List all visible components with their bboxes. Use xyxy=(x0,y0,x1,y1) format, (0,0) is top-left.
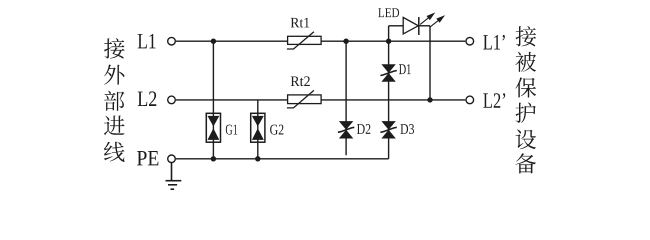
wire G2 branch (L2 to PE) xyxy=(257,100,259,159)
LED emission arrows xyxy=(420,14,443,28)
value label D1 xyxy=(399,64,411,74)
value label D2 xyxy=(357,124,371,134)
TVS diode D1 xyxy=(380,64,396,81)
node junction L1/G1 xyxy=(211,39,216,44)
thermistor Rt2 xyxy=(287,90,321,108)
node L1' label xyxy=(483,35,505,50)
wire L1 right segment xyxy=(321,40,465,42)
text 设 (right annotation) xyxy=(516,129,537,149)
node junction L2/LED drop xyxy=(427,97,432,102)
wire PE rail xyxy=(176,158,389,160)
value label Rt1 xyxy=(291,18,310,28)
text 部 (left annotation) xyxy=(104,91,124,111)
terminal L2' output xyxy=(466,96,474,104)
gas discharge tube G2 xyxy=(251,113,265,142)
wire D2 branch (L1 down, open end) xyxy=(345,41,347,155)
wire LED branch left riser xyxy=(388,26,390,41)
gas discharge tube G1 xyxy=(206,113,220,142)
wire D1-D3 branch (L1 to PE corner) xyxy=(388,41,390,159)
text 外 (left annotation) xyxy=(104,65,124,85)
wire G1 branch (L1 to PE) xyxy=(212,41,214,159)
TVS diode D2 xyxy=(338,121,354,138)
value label LED xyxy=(378,8,399,17)
value label D3 xyxy=(400,124,414,134)
terminal PE xyxy=(168,155,176,163)
text 备 (right annotation) xyxy=(515,153,536,173)
text 护 (right annotation) xyxy=(516,103,536,123)
node PE label xyxy=(137,151,158,165)
terminal L2 input xyxy=(168,96,176,104)
terminal L1' output xyxy=(466,37,474,45)
ground symbol at PE xyxy=(166,163,182,190)
text 保 (right annotation) xyxy=(515,77,536,97)
node junction PE/G1 xyxy=(211,156,216,161)
thermistor Rt1 xyxy=(287,32,321,49)
TVS diode D3 xyxy=(380,121,396,138)
text 接 (left annotation) xyxy=(104,38,125,58)
text 线 (left annotation) xyxy=(104,142,125,162)
node L1 label xyxy=(138,34,156,49)
wire LED branch top left xyxy=(389,25,404,27)
text 接 (right annotation) xyxy=(516,26,537,46)
value label Rt2 xyxy=(291,76,310,86)
wire L2 right segment xyxy=(321,99,465,101)
LED indicator diode xyxy=(403,17,419,35)
text 被 (right annotation) xyxy=(515,52,536,72)
wire LED branch top right xyxy=(419,25,430,27)
node L2 label xyxy=(138,91,157,106)
wire L2 left segment xyxy=(176,99,288,101)
value label G1 xyxy=(226,125,237,135)
value label G2 xyxy=(270,125,283,135)
text 进 (left annotation) xyxy=(104,116,125,136)
node junction L1/D1/LED xyxy=(386,39,391,44)
wire LED branch right drop (to L2) xyxy=(429,26,431,100)
terminal L1 input xyxy=(168,37,176,45)
node L2' label xyxy=(483,93,505,108)
node junction L1/D2 xyxy=(343,39,348,44)
wire L1 left segment xyxy=(176,40,288,42)
node junction PE/G2 xyxy=(255,156,260,161)
